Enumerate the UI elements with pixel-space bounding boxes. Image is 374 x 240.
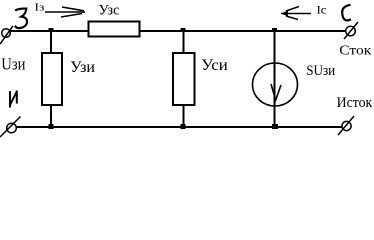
- svg-text:Із: Із: [35, 2, 45, 14]
- svg-text:Іс: Іс: [317, 3, 327, 17]
- svg-text:Узи: Узи: [70, 59, 95, 76]
- svg-text:Уси: Уси: [201, 57, 228, 74]
- svg-text:SUзи: SUзи: [306, 63, 335, 79]
- svg-text:Исток: Исток: [337, 95, 373, 111]
- svg-text:Uзи: Uзи: [1, 55, 25, 74]
- svg-text:Узс: Узс: [99, 3, 120, 19]
- svg-text:Сток: Сток: [339, 44, 371, 59]
